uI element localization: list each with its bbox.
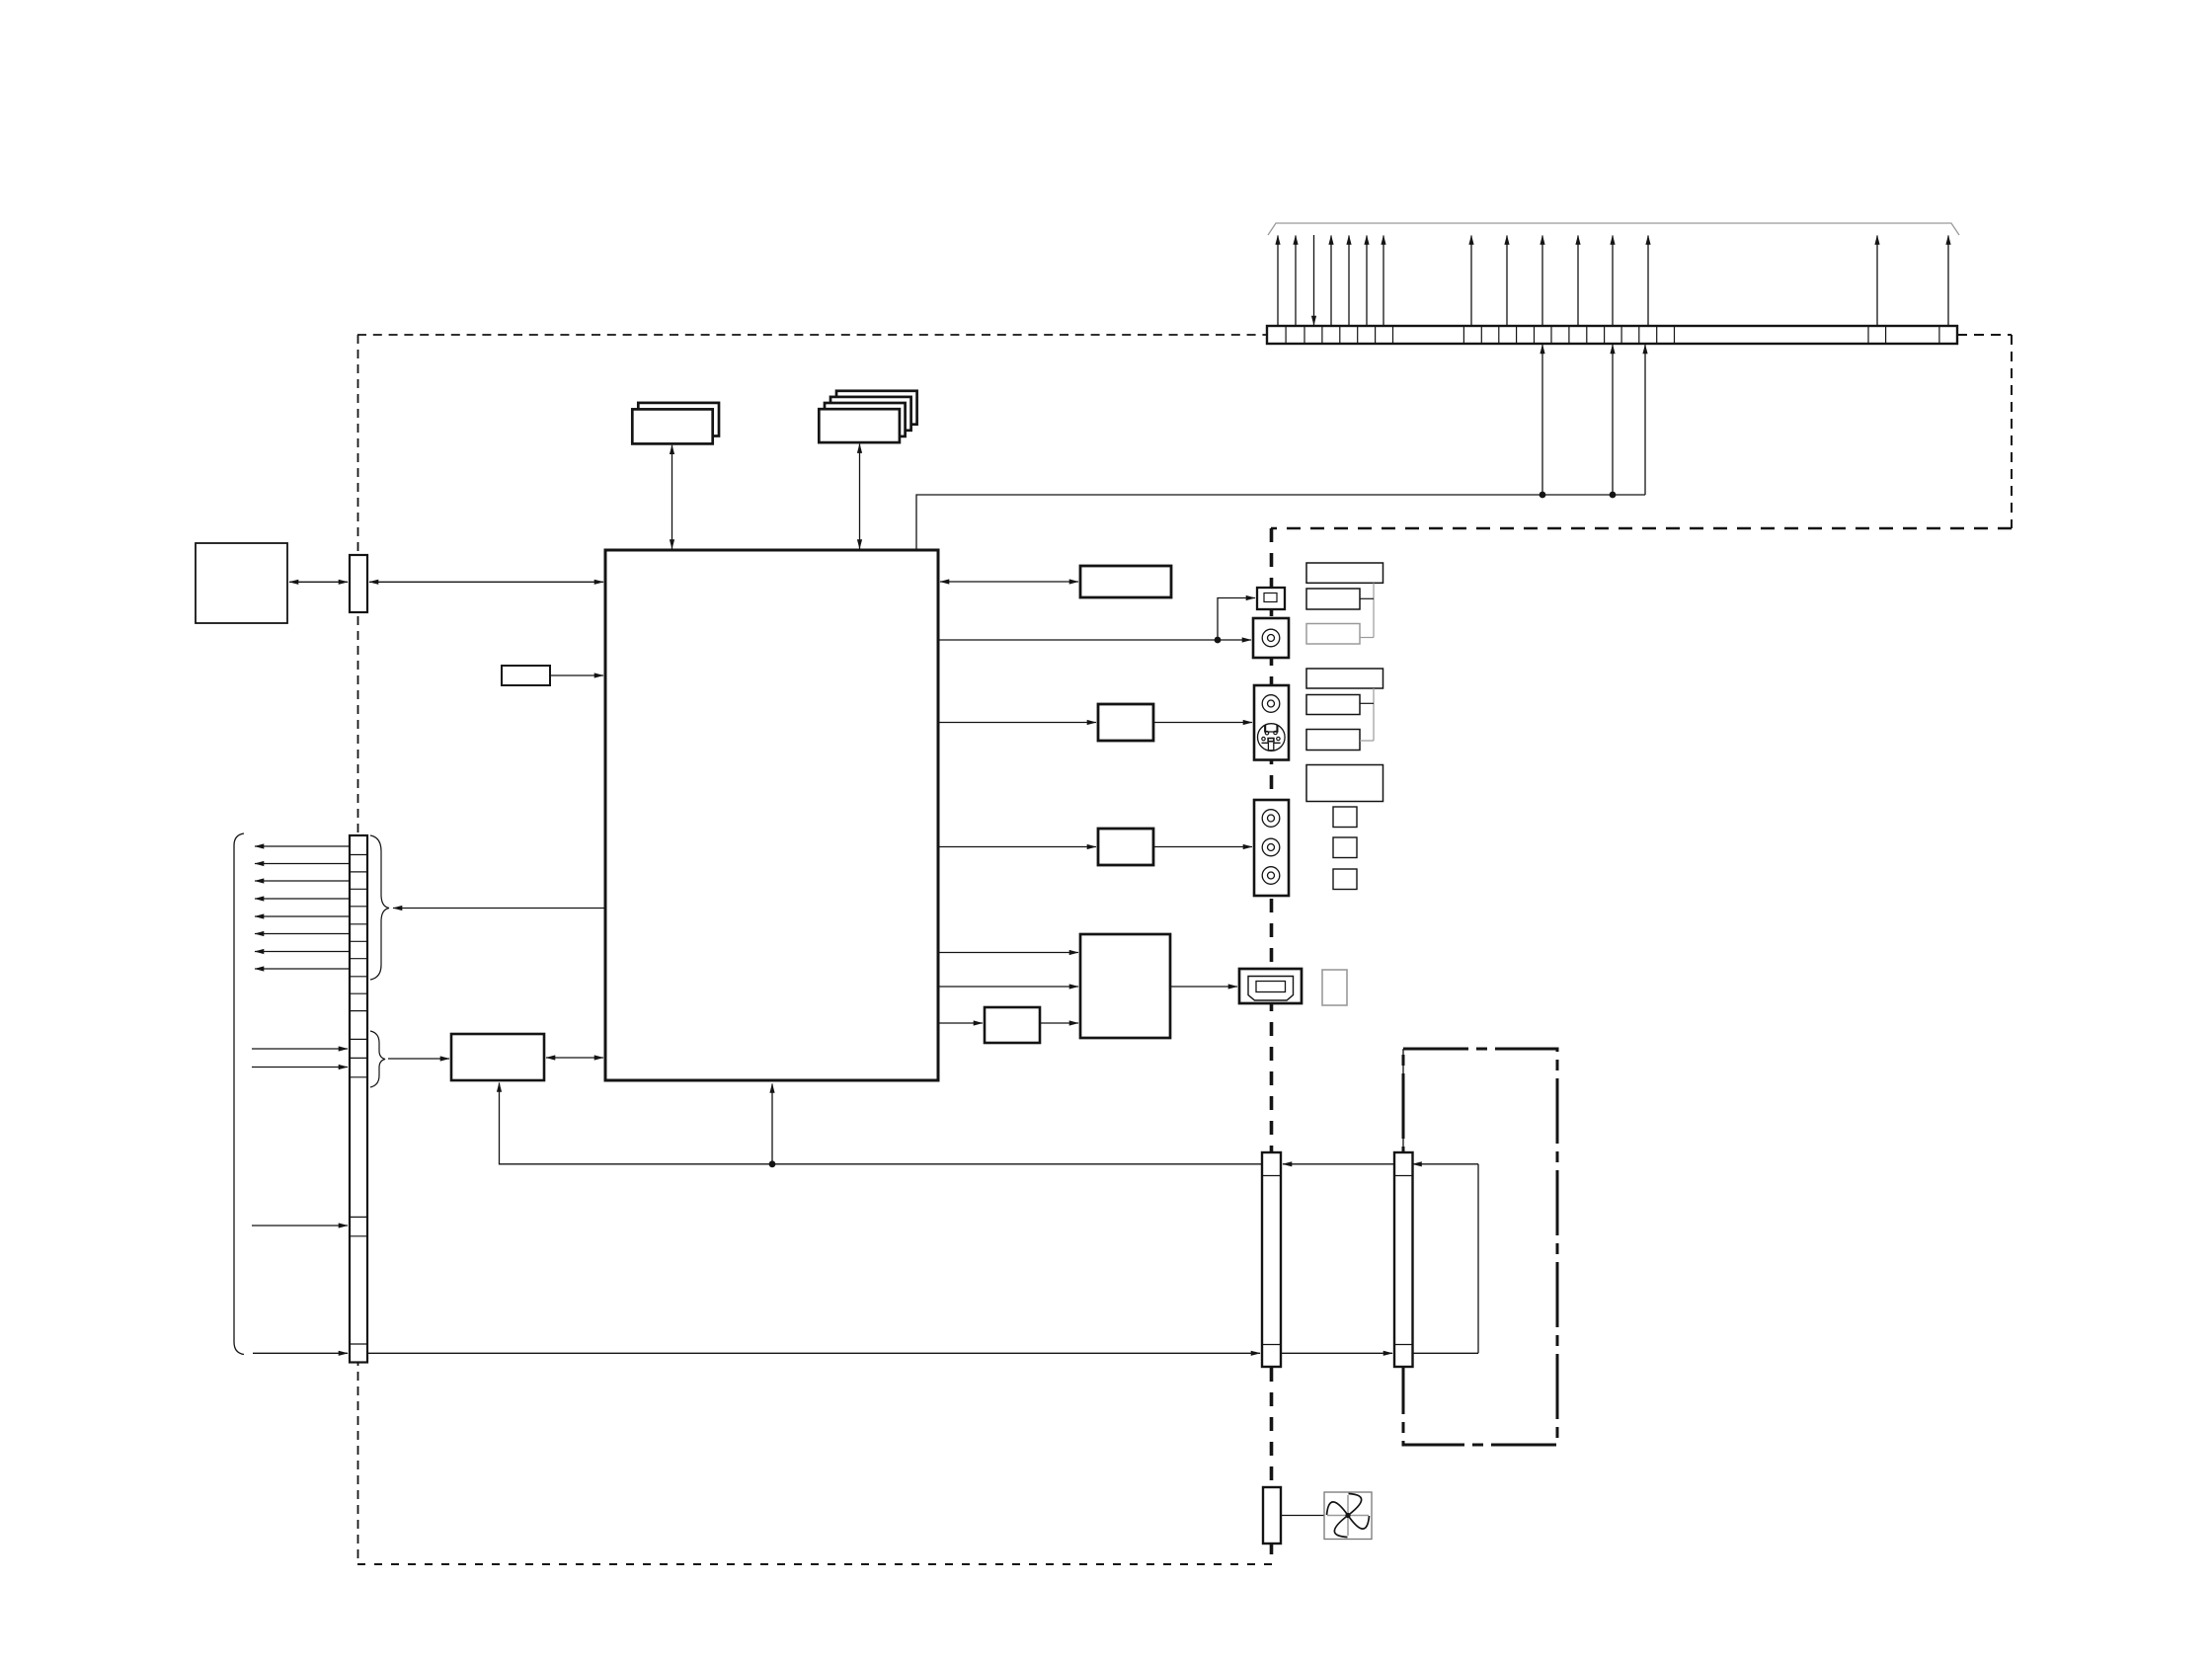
composite video RCA jack xyxy=(1253,618,1289,658)
main board dashed outline bottom side xyxy=(357,1563,1272,1565)
LCD panel chain-dotted outline xyxy=(1403,1049,1557,1445)
s-video mini-DIN socket symbol xyxy=(1258,724,1286,752)
bar pin arrows group 2 xyxy=(1471,236,1648,327)
label square HDMI (gray) xyxy=(1322,970,1347,1005)
audio input triple RCA connector xyxy=(1254,800,1289,896)
bar pin down arrow xyxy=(1313,235,1315,325)
label leader lines video group xyxy=(1360,583,1374,637)
panel block bold dashed vertical boundary xyxy=(1270,528,1274,1564)
DDR memory stack (4 sheets) xyxy=(819,391,916,442)
panel block dashed top boundary xyxy=(1271,527,2012,530)
audio amp box xyxy=(1080,566,1171,597)
power connector CN board side xyxy=(1262,1152,1281,1367)
wire from main IC top to bar risers xyxy=(916,495,1645,550)
main IC block xyxy=(605,550,938,1080)
wire power brace to regulator box xyxy=(388,1058,449,1060)
main board dashed outline right of connector bar xyxy=(1957,334,2012,336)
label box video out large xyxy=(1306,563,1383,583)
bar pin arrows group 3 xyxy=(1877,236,1948,327)
wire main IC to audio amp box xyxy=(940,581,1078,583)
HDMI input connector xyxy=(1239,969,1302,1003)
wire HDMI pre box to HDMI receiver xyxy=(1040,1022,1078,1024)
key strip input arrow row 3 xyxy=(252,1225,348,1227)
riser wire into bar pin xyxy=(1541,345,1543,495)
wire power connector to inverter connector bottom xyxy=(1281,1352,1392,1354)
label box s-video small 1 xyxy=(1306,695,1360,715)
wire fan connector to fan xyxy=(1281,1515,1324,1517)
wire antenna connector to main IC xyxy=(369,581,603,583)
wire main IC to s-video driver box xyxy=(938,722,1096,724)
label square audio 3 xyxy=(1333,869,1357,890)
label box video out small 2 (gray) xyxy=(1306,624,1360,645)
label box video out small 1 xyxy=(1306,589,1360,609)
label box s-video small 2 xyxy=(1306,730,1360,751)
wire main IC to HDMI pre box xyxy=(938,1022,983,1024)
HDMI pre box xyxy=(985,1007,1040,1043)
wire main IC to audio in driver box xyxy=(938,846,1096,848)
side key connector strip xyxy=(350,835,367,1363)
brace grouping key signals xyxy=(370,835,389,980)
antenna connector on board edge xyxy=(350,555,367,612)
main board dashed outline left side xyxy=(357,335,359,1564)
label box component standalone xyxy=(1306,765,1383,802)
crystal box xyxy=(502,666,550,685)
keypad harness bracket (big parenthesis) xyxy=(234,833,244,1355)
wire inverter connector to panel top xyxy=(1402,1049,1404,1152)
wire s-video driver to s-video connector xyxy=(1153,722,1252,724)
branch wire to optical out connector xyxy=(1218,598,1255,641)
wire junction up into main IC xyxy=(771,1084,773,1164)
main board dashed outline right vertical xyxy=(2011,335,2013,528)
s-video / composite input connector xyxy=(1254,685,1289,760)
riser wire into bar pin xyxy=(1644,345,1646,495)
wire tuner to antenna connector xyxy=(289,581,348,583)
wire regulator to main IC xyxy=(546,1057,603,1059)
HDMI receiver block xyxy=(1080,934,1170,1038)
wire main IC to key brace xyxy=(393,908,605,910)
wire main IC to HDMI receiver line 1 xyxy=(938,952,1078,954)
main board dashed outline top side xyxy=(357,334,1267,336)
optical digital out connector xyxy=(1257,588,1285,609)
s-video driver box xyxy=(1098,704,1153,741)
wire main IC to DDR stack xyxy=(859,444,861,549)
fan connector xyxy=(1263,1487,1281,1544)
wire main IC to HDMI receiver line 2 xyxy=(938,986,1078,988)
label box s-video large xyxy=(1306,669,1383,688)
EEPROM stack (2 sheets) xyxy=(632,403,719,444)
power feed wire from regulator down and right xyxy=(500,1083,1263,1164)
riser wire into bar pin xyxy=(1612,345,1614,495)
cooling fan xyxy=(1324,1492,1372,1540)
bottom wire key strip to power connector xyxy=(367,1352,1260,1354)
bar pin arrows group 1 xyxy=(1278,236,1383,327)
junction node on riser wire xyxy=(1540,492,1546,499)
brace grouping power signals xyxy=(370,1031,385,1087)
tuner box xyxy=(196,543,287,623)
label square audio 1 xyxy=(1333,807,1357,828)
inverter board box xyxy=(1413,1164,1479,1354)
junction node under main IC xyxy=(769,1160,776,1167)
cable bundle bracket above bar xyxy=(1268,223,1959,235)
wire crystal to main IC xyxy=(550,674,603,676)
wire audio driver to audio jacks xyxy=(1153,846,1252,848)
key strip bottom input arrow xyxy=(253,1352,348,1354)
junction node on riser wire 2 xyxy=(1610,492,1617,499)
inverter connector panel side xyxy=(1394,1152,1413,1367)
wire power connector to inverter connector top xyxy=(1283,1163,1394,1165)
regulator box xyxy=(451,1034,544,1080)
key strip input arrows xyxy=(252,1049,348,1068)
audio in driver box xyxy=(1098,829,1153,865)
connector bar (board-to-panel pin header) xyxy=(1267,326,1957,344)
label square audio 2 xyxy=(1333,837,1357,858)
key strip output arrows xyxy=(255,846,350,969)
junction node on composite wire xyxy=(1215,637,1222,644)
wire main IC to composite video jack xyxy=(938,639,1251,641)
wire main IC to EEPROM stack xyxy=(671,445,673,549)
label leader lines s-video group xyxy=(1360,688,1374,741)
wire HDMI receiver to HDMI connector xyxy=(1170,986,1237,988)
